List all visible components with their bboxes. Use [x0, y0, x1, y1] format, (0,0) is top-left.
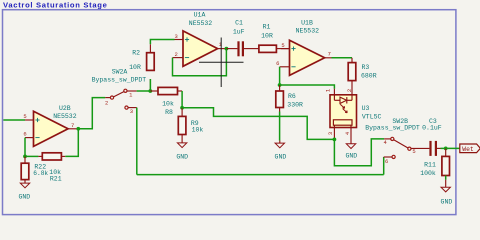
wire U2B out to SW2A pin2	[78, 98, 105, 129]
wire junction to U3 pin1	[280, 85, 335, 89]
wire SW2A pin1 to junction	[137, 90, 151, 92]
svg-text:R6: R6	[288, 93, 296, 100]
wire R6 to ground	[279, 112, 281, 141]
svg-text:Wet: Wet	[462, 146, 474, 153]
svg-text:GND: GND	[441, 199, 453, 206]
svg-text:330R: 330R	[287, 102, 303, 109]
resistor R2	[147, 44, 155, 91]
svg-text:10R: 10R	[129, 64, 141, 71]
svg-text:7: 7	[71, 122, 74, 129]
junction R8/R9/wire	[180, 106, 184, 110]
svg-text:5: 5	[281, 42, 284, 49]
svg-text:3: 3	[327, 132, 334, 135]
resistor R6	[276, 85, 284, 112]
resistor R11	[442, 148, 450, 175]
ground under R9	[176, 143, 188, 161]
svg-text:U1B: U1B	[301, 19, 313, 26]
resistor R22	[21, 156, 29, 183]
svg-text:R8: R8	[165, 109, 173, 116]
svg-text:6: 6	[276, 60, 279, 67]
resistor R21	[38, 153, 65, 160]
svg-text:Bypass_sw_DPDT: Bypass_sw_DPDT	[92, 76, 147, 83]
junction U3 pin3 node	[333, 138, 337, 142]
ground under R11	[441, 180, 453, 206]
wire R21 to U2B out	[65, 129, 78, 157]
capacitor C1	[226, 41, 259, 56]
junction U1B pin6/R6/U3	[278, 83, 282, 87]
wire U1A feedback	[173, 49, 227, 76]
wire U3 pin3 node to divider node	[182, 108, 334, 140]
wire U1B out to R3	[332, 57, 353, 59]
junction U2B output	[76, 127, 80, 131]
switch SW2A	[105, 89, 137, 109]
svg-text:VTL5C: VTL5C	[362, 114, 382, 121]
svg-text:6: 6	[23, 130, 26, 137]
op-amp U1B	[280, 40, 332, 75]
hierarchical label Wet	[460, 144, 480, 153]
svg-text:U2B: U2B	[59, 105, 71, 112]
switch SW2B	[384, 137, 430, 158]
svg-text:GND: GND	[176, 153, 188, 160]
wire U2B pin6 down	[24, 138, 26, 157]
op-amp U2B	[25, 111, 77, 146]
svg-text:3: 3	[175, 33, 178, 40]
wire bypass bus bottom	[137, 174, 384, 176]
wire C3 to Wet	[441, 147, 460, 149]
svg-text:GND: GND	[18, 193, 30, 200]
svg-text:NE5532: NE5532	[189, 20, 213, 27]
resistor R8	[150, 87, 182, 94]
svg-text:100k: 100k	[420, 170, 436, 177]
wire R11 to ground	[445, 176, 447, 180]
junction R2/SW2A/R8	[148, 89, 152, 93]
svg-text:NE5532: NE5532	[296, 27, 320, 34]
svg-text:R21: R21	[50, 176, 62, 183]
ground under U3 pin4	[345, 144, 357, 160]
svg-text:1uF: 1uF	[233, 28, 245, 35]
svg-text:GND: GND	[275, 153, 287, 160]
svg-text:Vactrol Saturation Stage: Vactrol Saturation Stage	[3, 0, 108, 9]
svg-text:C1: C1	[235, 20, 243, 27]
cursor crosshair	[199, 38, 244, 88]
svg-text:7: 7	[328, 50, 331, 57]
svg-text:SW2A: SW2A	[112, 69, 128, 76]
resistor R3	[348, 58, 356, 95]
wire R8 right down to node	[181, 91, 183, 108]
ground under R6	[275, 141, 287, 161]
svg-text:0.1uF: 0.1uF	[422, 124, 442, 131]
svg-text:10k: 10k	[192, 126, 204, 133]
wire U3 pin3 node to SW2B pin4	[334, 139, 384, 166]
junction U1A output	[225, 47, 229, 51]
capacitor C3	[429, 141, 440, 156]
svg-text:NE5532: NE5532	[53, 113, 77, 120]
svg-text:GND: GND	[345, 153, 357, 160]
wire junction to R21	[25, 155, 38, 157]
svg-text:10R: 10R	[261, 32, 273, 39]
svg-text:6.8k: 6.8k	[33, 170, 48, 177]
wire input to U2B pin5	[3, 119, 25, 121]
resistor R9	[178, 108, 186, 143]
wire R2 top to U1A pin3	[150, 40, 174, 45]
svg-text:R11: R11	[424, 162, 436, 169]
svg-text:R1: R1	[263, 24, 271, 31]
svg-text:5: 5	[412, 148, 415, 155]
svg-text:Bypass_sw_DPDT: Bypass_sw_DPDT	[365, 124, 420, 131]
svg-text:2: 2	[175, 51, 178, 58]
svg-text:U3: U3	[362, 105, 370, 112]
svg-text:2: 2	[346, 89, 353, 92]
svg-text:10k: 10k	[162, 101, 174, 108]
ground under R22	[18, 183, 30, 200]
wire U1B pin6 down	[279, 67, 281, 85]
wire R2 bottom	[149, 79, 151, 91]
svg-text:3: 3	[130, 108, 133, 115]
vactrol U3	[330, 89, 357, 144]
svg-text:U1A: U1A	[194, 11, 206, 18]
wire SW2A pin3 down to bypass bus	[136, 108, 138, 175]
wire bypass bus up to SW2B pin6	[383, 157, 385, 175]
svg-text:680R: 680R	[361, 73, 377, 80]
svg-text:R2: R2	[132, 49, 140, 56]
op-amp U1A	[173, 31, 227, 66]
svg-text:2: 2	[105, 99, 108, 106]
svg-text:5: 5	[23, 113, 26, 120]
junction pin6/R21/R22	[23, 155, 27, 159]
svg-text:R3: R3	[362, 64, 370, 71]
svg-text:6: 6	[385, 158, 388, 165]
resistor R1	[259, 45, 290, 52]
junction C3/R11/Wet	[444, 147, 448, 151]
